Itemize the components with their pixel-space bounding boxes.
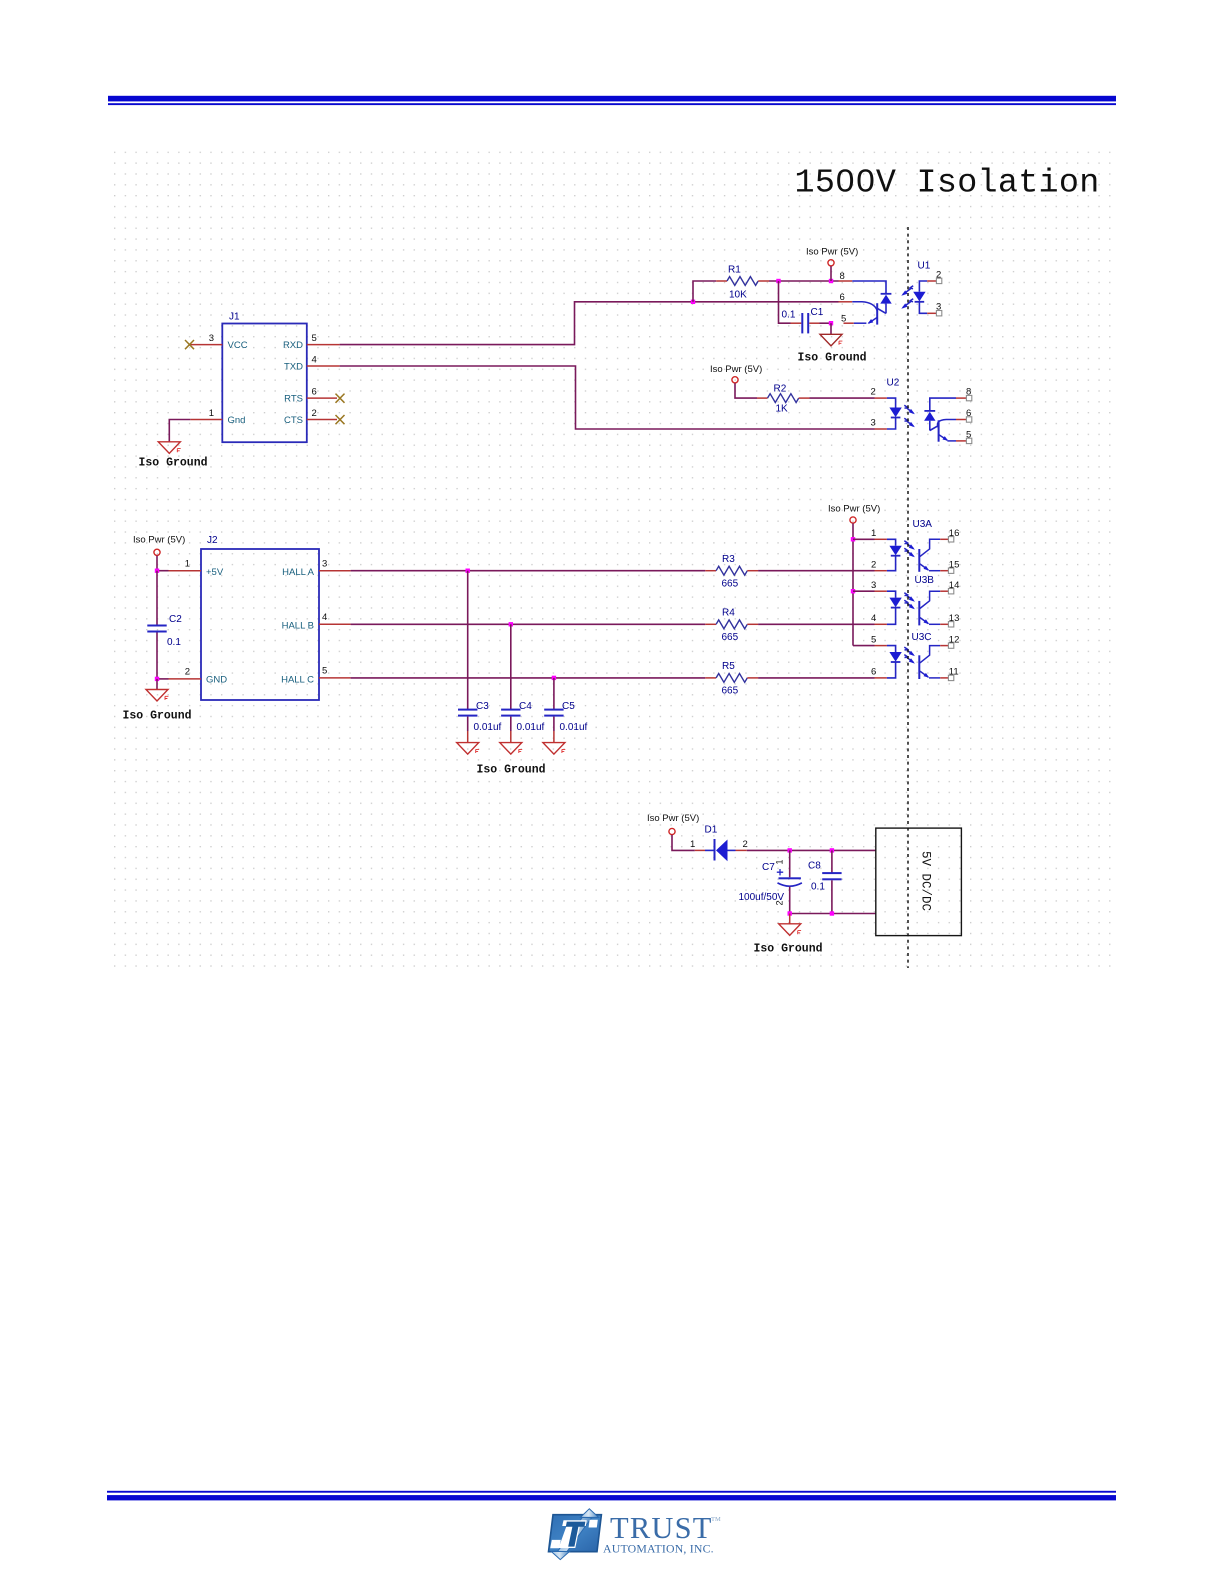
wire J1 gnd to ground [169,420,190,442]
svg-text:2: 2 [775,900,785,905]
U3B pin 14 square [948,589,953,594]
J2 pin 1 stub wire [169,570,202,572]
wire stub red U3A pin1 [875,538,887,540]
U3A LED triangle [889,546,901,556]
ground symbol at C4 [500,743,522,755]
U3B transistor bar [918,601,920,626]
svg-text:8: 8 [966,387,971,398]
capacitor C1 plates [801,313,809,333]
U2 transistor bar [938,420,940,441]
resistor R4 zigzag [716,620,747,629]
U2 light arrowhead lower [909,422,915,427]
svg-text:5: 5 [312,333,317,344]
wire stub red C5 to ground [553,731,555,743]
wire stub red at U3C pin 6 [875,677,887,679]
svg-text:1: 1 [775,859,785,864]
svg-text:Iso Ground: Iso Ground [477,764,546,777]
svg-text:+5V: +5V [206,567,224,578]
svg-text:3: 3 [871,418,876,429]
top border thin blue line [108,103,1116,105]
svg-text:Iso Pwr (5V): Iso Pwr (5V) [710,364,762,375]
U3A emitter diagonal [920,564,928,570]
wire stub red at U1 pin 6 [839,301,853,303]
U3C LED triangle [889,652,901,662]
U2 detector diode triangle [924,412,935,421]
U2 LED cathode bar [891,417,901,419]
U3B emitter diagonal [920,618,928,624]
J1 pin 4 TXD stub wire [307,365,340,367]
svg-text:5: 5 [322,666,327,677]
U3C stub red pin11 [940,677,948,679]
U3B emitter lead [929,623,940,625]
svg-text:2: 2 [936,270,941,281]
wire stub red C3 to ground [467,731,469,743]
U3B light arrowhead upper [909,596,915,601]
U1 pin 2 square [936,278,941,283]
U2 light arrow lower [904,418,913,426]
capacitor C8 plates [822,872,841,880]
junction power / C2 top [155,569,159,573]
svg-text:D1: D1 [705,825,718,836]
svg-text:C8: C8 [808,861,821,872]
power symbol Iso Pwr (5V) at J2 [154,549,160,555]
svg-text:1: 1 [209,408,214,419]
wire stub red at U2 pin 3 [875,428,887,430]
logo arrow shaft [557,1518,592,1552]
svg-text:3: 3 [871,580,876,591]
op-to detector U1 left: pin8 collector path [852,281,886,294]
ground tiny mark C5 [562,749,565,753]
U3A light arrowhead lower [909,552,915,557]
wire C7 upper lead [789,850,791,877]
wire C2 upper lead [156,571,158,626]
U3B LED triangle [889,598,901,608]
U1 diode bar [881,293,892,295]
junction RXD / R1 left node [691,300,695,304]
svg-text:Iso Ground: Iso Ground [123,710,192,723]
U3A emitter arrowhead [924,566,930,571]
junction HALL C / C5 tap [552,676,556,680]
U3C emitter arrowhead [924,673,930,678]
U3A light arrow lower [904,548,913,556]
svg-text:Iso Ground: Iso Ground [798,352,867,365]
wire power stem to R2 [735,383,757,398]
svg-text:5: 5 [871,634,876,645]
Trust Automation logo mark parallelogram [549,1515,602,1552]
U3B LED cathode bar [891,607,901,609]
svg-text:5: 5 [966,429,971,440]
svg-text:C1: C1 [811,307,824,318]
wire HALL A net to R3 [351,570,706,572]
U3A stub red pin15 [940,570,948,572]
wire C4 lower lead [510,717,512,731]
svg-text:1: 1 [690,839,695,850]
svg-text:HALL C: HALL C [281,675,314,686]
wire TXD net from J1 pin4 to U2 pin3 [340,366,875,429]
U2 stub red pin5 [956,440,966,442]
U1 transistor bar [876,303,878,324]
ground symbol at C1 node [820,334,842,346]
DC/DC converter box [876,828,962,936]
svg-text:8: 8 [840,271,845,282]
U2 LED triangle [889,408,901,418]
U3C light arrowhead lower [909,658,915,663]
isolation barrier dashed line [907,227,909,968]
svg-text:2: 2 [871,387,876,398]
wire stub red C1 right [809,322,819,324]
svg-text:Gnd: Gnd [228,415,246,426]
wire C4 upper lead [510,624,512,709]
wire stub red R5 left [705,677,716,679]
U3C light arrowhead upper [909,651,915,656]
U3A LED lower lead [887,556,896,571]
U2 stub red pin8 [956,397,966,399]
wire stub red D1 pin1 [695,849,705,851]
U2 LED lower lead to pin3 [887,418,896,430]
U3B LED lower lead [887,608,896,625]
svg-text:3: 3 [936,301,941,312]
svg-text:6: 6 [312,387,317,398]
ground symbol at J1 [158,442,180,454]
U3B stub red pin13 [940,623,948,625]
U3A pin 16 square [948,537,953,542]
wire power stem U1 [830,266,832,281]
svg-text:Iso Pwr (5V): Iso Pwr (5V) [828,504,880,515]
J1 pin 5 RXD stub wire [307,344,340,346]
svg-text:TXD: TXD [284,362,303,373]
ground tiny mark C7 [798,931,801,935]
svg-text:665: 665 [722,579,739,590]
wire node to J2 pin1 [157,570,169,572]
resistor R2 zigzag [768,394,799,403]
U3C LED lower lead [887,662,896,678]
svg-text:Iso Pwr (5V): Iso Pwr (5V) [806,247,858,258]
svg-text:RTS: RTS [284,394,303,405]
wire C1 left lead vertical [779,281,791,323]
svg-text:Iso Pwr (5V): Iso Pwr (5V) [647,813,699,824]
svg-text:Iso Ground: Iso Ground [754,943,823,956]
junction C2 bottom / gnd [155,677,159,681]
svg-text:U3C: U3C [912,632,932,643]
U3A emitter lead [929,570,940,572]
svg-text:Iso Pwr (5V): Iso Pwr (5V) [133,535,185,546]
svg-text:4: 4 [312,355,317,366]
U1 emitter diagonal [869,317,878,323]
U3B LED upper lead [887,591,896,597]
logo white notch lower left [550,1540,561,1548]
U2 emitter arrowhead [943,436,949,441]
J1 pin 2 CTS stub wire [307,419,337,421]
svg-text:6: 6 [966,408,971,419]
wire U3A pin1 row [853,538,875,540]
svg-text:665: 665 [722,632,739,643]
capacitor C4 plates [501,709,520,717]
wire stub red R1 left [716,280,727,282]
wire R1 left lead [693,281,716,302]
svg-text:AUTOMATION, INC.: AUTOMATION, INC. [603,1542,714,1556]
U2 base curve from pin 6 [937,420,956,429]
capacitor C7 curved plate [778,883,802,886]
wire stub red R5 right [747,677,758,679]
ground tiny mark J1 [177,449,180,453]
junction power rail U3A pin1 [851,537,855,541]
wire power stem J2 [156,556,158,571]
capacitor C2 plates [147,625,166,633]
svg-text:4: 4 [322,612,327,623]
svg-text:13: 13 [949,613,960,624]
wire R5 to U3C pin6 [758,677,874,679]
junction C8 top [830,848,834,852]
U2 LED upper lead from pin2 [887,398,896,407]
ground tiny mark J2 [165,696,168,700]
wire stub red C1 left [791,322,802,324]
svg-text:15: 15 [949,559,960,570]
no-connect X on J1 pin 2 [336,415,345,424]
svg-text:2: 2 [743,839,748,850]
svg-text:3: 3 [322,559,327,570]
junction HALL A / C3 tap [466,569,470,573]
wire U3C pin5 row [853,645,875,647]
U3C pin 12 square [948,643,953,648]
wire stub red R3 right [747,570,758,572]
wire stub red at U1 pin 5 [844,322,854,324]
U1 collector diagonal [877,308,886,313]
svg-text:0.1: 0.1 [782,310,796,321]
U3A LED upper lead [887,539,896,545]
U1 light arrowhead upper [901,290,907,295]
D1 cathode bar [714,839,716,861]
wire C5 upper lead [553,678,555,710]
U1 emitter arrowhead [868,319,874,324]
wire C2 lower lead [156,633,158,679]
U3A light arrowhead upper [909,544,915,549]
svg-text:16: 16 [949,528,960,539]
U3B light arrow upper [904,593,913,601]
wire power stem to D1 [672,835,695,851]
svg-text:U2: U2 [887,378,900,389]
U3A LED cathode bar [891,555,901,557]
U1 LED stub red pin2 [927,280,936,282]
wire HALL C net to R5 [351,677,706,679]
junction C8 bottom [830,911,834,915]
svg-text:0.01uf: 0.01uf [517,722,545,733]
wire stub red U3C pin5 [875,645,887,647]
svg-text:10K: 10K [729,290,747,301]
wire node to ground J2 [156,679,158,690]
power symbol Iso Pwr (5V) at U3 [850,517,856,523]
svg-text:U3B: U3B [915,575,935,586]
wire C3 lower lead [467,717,469,731]
svg-text:1: 1 [871,528,876,539]
J2 pin 2 stub wire [169,678,202,680]
wire C1 right to node [820,322,832,324]
ground tiny mark C4 [519,749,522,753]
wire stub red C4 to ground [510,731,512,743]
svg-text:C4: C4 [519,701,532,712]
U3B light arrowhead lower [909,604,915,609]
no-connect X on J1 pin 3 [185,340,194,349]
U3A transistor bar [918,549,920,572]
U3A stub red pin16 [940,538,948,540]
svg-text:TRUST: TRUST [610,1511,713,1545]
D1 triangle [716,840,728,862]
U1 light arrow upper [903,286,913,295]
ground tiny mark C1 [839,341,842,345]
J1 pin 6 RTS stub wire [307,397,337,399]
resistor R5 zigzag [716,674,747,683]
wire R3 to U3A pin2 [758,570,874,572]
wire stub red R2 right [799,397,810,399]
U1 diode triangle [880,295,891,304]
U1 light arrowhead lower [901,303,907,308]
svg-text:J1: J1 [229,312,240,323]
capacitor C5 plates [544,709,563,717]
J2 pin 5 HALL C stub wire [319,677,351,679]
wire stub red at U1 pin 8 [839,280,853,282]
U1 LED stub red pin3 [927,312,936,314]
resistor R1 zigzag [727,277,758,286]
svg-text:2: 2 [871,559,876,570]
wire stub red R4 left [705,623,716,625]
svg-text:R5: R5 [722,661,735,672]
svg-text:665: 665 [722,686,739,697]
wire U3B pin3 row [853,590,875,592]
svg-text:1500V Isolation: 1500V Isolation [795,165,1100,203]
wire C5 lower lead [553,717,555,731]
U3C emitter diagonal [920,671,928,677]
svg-text:0.1: 0.1 [167,637,181,648]
svg-text:VCC: VCC [228,340,248,351]
bottom border thick blue bar [107,1495,1116,1500]
power symbol Iso Pwr (5V) at R2 [732,377,738,383]
wire R4 to U3B pin4 [758,623,874,625]
svg-text:C7: C7 [762,862,775,873]
wire stub red U3B pin3 [875,590,887,592]
svg-text:14: 14 [949,580,960,591]
svg-text:0.1: 0.1 [811,882,825,893]
svg-text:2: 2 [312,408,317,419]
wire stub red at U3A pin 2 [875,570,887,572]
svg-text:1K: 1K [776,404,789,415]
U1 LED right: pin2 lead [919,281,927,292]
J2 pin 3 HALL A stub wire [319,570,351,572]
U3A collector lead [920,539,940,556]
ground symbol at C7 [779,924,801,936]
U1 diode lower lead [885,304,887,314]
svg-text:12: 12 [949,634,960,645]
svg-text:U1: U1 [918,261,931,272]
svg-text:CTS: CTS [284,415,303,426]
logo dark T glyph [566,1522,586,1547]
U2 detector diode lower lead [929,421,931,431]
U1 LED lower lead to pin3 [919,302,927,314]
wire RXD net from J1 pin5 to R1 node and U1 pin6 [340,302,839,345]
svg-text:11: 11 [949,667,959,678]
wire R1 right to power node to U1 pin8 [769,280,839,282]
U2 stub red pin6 [956,419,966,421]
junction C7 top [788,848,792,852]
connector J2 body [201,549,319,700]
U3C light arrow upper [904,647,913,655]
wire node to J2 pin2 [157,678,169,680]
wire stub red R4 right [747,623,758,625]
U1 emitter lead to pin5 [854,322,867,324]
wire node to ground C1 [830,323,832,334]
U2 collector diagonal [930,425,939,430]
U3B emitter arrowhead [924,619,930,624]
svg-text:GND: GND [206,675,227,686]
U2 light arrowhead upper [909,409,915,414]
wire D1 to DC/DC input [747,849,876,851]
svg-text:Iso Ground: Iso Ground [139,457,208,470]
U3A light arrow upper [904,541,913,549]
svg-text:4: 4 [871,613,876,624]
svg-text:6: 6 [871,667,876,678]
junction C1 right / U1 pin5 node [829,321,833,325]
U2 pin 5 square [966,438,971,443]
U2 detector pin8 lead [930,398,956,411]
wire C8 lower lead [831,880,833,913]
svg-text:0.01uf: 0.01uf [474,722,502,733]
svg-text:HALL A: HALL A [282,567,315,578]
svg-text:6: 6 [840,292,845,303]
logo arrow down head [551,1552,569,1560]
capacitor C3 plates [458,709,477,717]
svg-text:U3A: U3A [913,519,933,530]
U1 base curve from pin 6 [852,302,877,311]
wire stub red D1 pin2 [736,849,747,851]
U3C stub red pin12 [940,645,948,647]
U1 light arrow lower [903,299,913,308]
wire stub red R3 left [705,570,716,572]
wire DC/DC return rail [790,913,876,915]
svg-text:C5: C5 [562,701,575,712]
logo white T swath [559,1520,587,1548]
J1 pin 3 VCC stub wire [190,344,223,346]
wire C8 upper lead [831,850,833,873]
wire power stem U3 [852,523,854,539]
svg-text:R3: R3 [722,554,735,565]
no-connect X on J1 pin 6 [336,394,345,403]
wire U3 anode power rail vertical [852,539,854,645]
U2 emitter lead to pin5 [947,440,956,442]
U3C emitter lead [929,677,940,679]
junction R1 right / C1 node [776,279,780,283]
title zero dot covers [843,176,869,184]
svg-text:R4: R4 [722,608,735,619]
U3C LED upper lead [887,646,896,652]
D1 anode lead [705,849,715,851]
wire C3 upper lead [467,571,469,710]
U3C pin 11 square [948,675,953,680]
svg-text:2: 2 [185,667,190,678]
wire stub red at U2 pin 2 [875,397,887,399]
wire stub red R2 left [757,397,768,399]
svg-text:5V DC/DC: 5V DC/DC [919,851,933,911]
bottom border thin blue line [107,1491,1116,1493]
junction power rail U3B pin3 [851,589,855,593]
U3C transistor bar [918,655,920,679]
svg-text:R2: R2 [774,384,787,395]
svg-text:5: 5 [841,313,846,324]
svg-text:TM: TM [711,1516,721,1523]
svg-text:HALL B: HALL B [282,621,314,632]
U3B stub red pin14 [940,590,948,592]
ground symbol at C5 [543,743,565,755]
power symbol Iso Pwr (5V) at D1 [669,828,675,834]
ground symbol at J2 [146,690,168,702]
wire stub red at U3B pin 4 [875,623,887,625]
